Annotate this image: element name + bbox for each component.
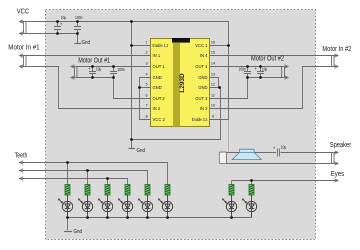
svg-text:8: 8 [145,115,147,119]
svg-text:OUT 1: OUT 1 [153,64,166,69]
svg-text:IN 2: IN 2 [153,106,161,111]
svg-text:100n: 100n [117,67,125,72]
svg-text:Motor Out #2: Motor Out #2 [251,56,284,63]
svg-text:Gnd: Gnd [74,229,83,235]
svg-text:VCC 1: VCC 1 [195,43,208,48]
svg-text:+: + [60,21,63,26]
svg-text:10: 10 [211,104,215,108]
svg-text:11: 11 [211,94,215,98]
svg-text:Gnd: Gnd [82,40,91,46]
svg-text:VCC 2: VCC 2 [153,117,166,122]
svg-text:Gnd: Gnd [137,148,146,154]
svg-text:13: 13 [211,73,215,77]
svg-text:GND: GND [153,85,162,90]
svg-text:1: 1 [145,41,147,45]
svg-text:L293D: L293D [179,73,186,93]
svg-text:10µ: 10µ [96,66,102,71]
svg-text:GND: GND [198,75,207,80]
svg-text:VCC: VCC [17,8,29,15]
svg-text:IN 3: IN 3 [200,106,208,111]
svg-text:GND: GND [153,75,162,80]
svg-text:100n: 100n [239,66,247,71]
svg-text:Enable 3,4: Enable 3,4 [192,117,208,122]
svg-text:14: 14 [211,62,215,66]
svg-text:OUT 2: OUT 2 [153,96,166,101]
svg-text:Speaker: Speaker [330,142,352,149]
svg-text:Motor In #1: Motor In #1 [8,44,39,51]
svg-text:Motor Out #1: Motor Out #1 [78,58,110,65]
svg-text:4: 4 [145,73,147,77]
svg-text:Enable 1,2: Enable 1,2 [153,43,169,48]
svg-text:Teeth: Teeth [15,153,28,160]
svg-text:+: + [254,66,257,71]
svg-text:6: 6 [145,94,147,98]
svg-text:2: 2 [145,51,147,55]
svg-text:GND: GND [198,85,207,90]
svg-text:Motor In #2: Motor In #2 [322,46,351,53]
svg-text:3: 3 [145,62,147,66]
svg-text:12: 12 [211,83,215,87]
svg-text:OUT 4: OUT 4 [195,64,208,69]
svg-text:10µ: 10µ [262,66,268,71]
svg-text:15: 15 [211,51,215,55]
svg-text:5: 5 [145,83,147,87]
svg-text:16: 16 [211,41,215,45]
svg-text:9: 9 [212,115,214,119]
svg-text:+: + [273,146,276,151]
svg-text:+: + [88,66,91,71]
svg-text:10µ: 10µ [61,15,67,20]
svg-text:IN 4: IN 4 [200,53,208,58]
svg-text:OUT 3: OUT 3 [195,96,208,101]
svg-text:7: 7 [145,104,147,108]
svg-text:100n: 100n [75,15,83,20]
svg-text:IN 1: IN 1 [153,53,161,58]
svg-text:10µ: 10µ [281,144,287,149]
svg-text:Eyes: Eyes [331,171,345,178]
